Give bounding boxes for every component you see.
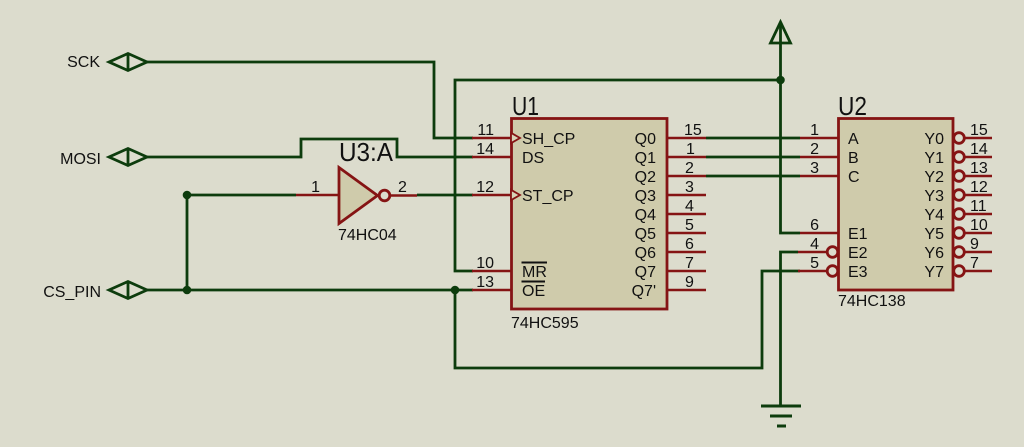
svg-text:9: 9 [970, 236, 979, 253]
svg-text:14: 14 [970, 141, 988, 158]
svg-text:C: C [848, 169, 860, 186]
svg-text:ST_CP: ST_CP [522, 188, 574, 205]
U1 pin 13 OE [472, 274, 545, 300]
svg-text:Y4: Y4 [924, 207, 944, 224]
svg-text:Q3: Q3 [635, 188, 656, 205]
U2 pin 4 E2 [798, 236, 868, 262]
svg-text:1: 1 [686, 141, 695, 158]
svg-text:Q5: Q5 [635, 226, 656, 243]
svg-text:10: 10 [476, 255, 494, 272]
wire CS_PIN to OE [147, 289, 473, 292]
svg-text:Q2: Q2 [635, 169, 656, 186]
wire Q1 to B [706, 156, 800, 159]
terminal CS_PIN [109, 282, 147, 299]
svg-text:12: 12 [970, 179, 988, 196]
U2 pin 1 A [800, 122, 859, 148]
svg-text:Y6: Y6 [924, 245, 944, 262]
junction on CS_PIN at x187 [183, 286, 192, 295]
svg-text:11: 11 [477, 122, 494, 139]
svg-text:MOSI: MOSI [60, 151, 101, 168]
svg-text:4: 4 [810, 236, 819, 253]
svg-text:Y3: Y3 [924, 188, 944, 205]
wire Q0 to A [706, 137, 800, 140]
U2 pin 10 Y5 [924, 217, 992, 243]
inverter U3:A [339, 168, 390, 224]
U1 pin 11 SH_CP [472, 122, 575, 148]
svg-text:12: 12 [476, 179, 494, 196]
svg-text:2: 2 [685, 160, 694, 177]
svg-text:74HC138: 74HC138 [838, 293, 906, 310]
wire CS_PIN down to bottom rail and E3 [455, 271, 800, 368]
svg-text:U1: U1 [512, 91, 539, 121]
wire inverter output to ST_CP [417, 194, 473, 197]
junction VCC rail [776, 76, 785, 85]
svg-text:1: 1 [810, 122, 819, 139]
U1 pin 6 Q6 [635, 236, 706, 262]
wire VCC rail to MR [455, 80, 781, 271]
wire VCC vertical to E1 [781, 22, 801, 233]
svg-text:5: 5 [685, 217, 694, 234]
U2 pin 11 Y4 [924, 198, 992, 224]
svg-text:5: 5 [810, 255, 819, 272]
U2 pin 6 E1 [800, 217, 868, 243]
U1 pin 2 Q2 [635, 160, 706, 186]
svg-text:B: B [848, 150, 859, 167]
svg-text:2: 2 [810, 141, 819, 158]
U1 pin 15 Q0 [635, 122, 706, 148]
U2 pin 12 Y3 [924, 179, 992, 205]
svg-text:7: 7 [970, 255, 979, 272]
svg-text:74HC04: 74HC04 [338, 227, 397, 244]
junction CS_PIN at x455 [451, 286, 460, 295]
U2 pin 9 Y6 [924, 236, 992, 262]
svg-text:SH_CP: SH_CP [522, 131, 575, 148]
svg-text:74HC595: 74HC595 [511, 315, 579, 332]
U1 pin 3 Q3 [635, 179, 706, 205]
U2 pin 2 B [800, 141, 859, 167]
wire E2 to ground [781, 252, 799, 406]
terminal SCK [109, 54, 147, 71]
U2 pin 13 Y2 [924, 160, 992, 186]
U3:A pin 1 [296, 194, 339, 197]
junction on inverter input [183, 191, 192, 200]
svg-text:3: 3 [685, 179, 694, 196]
power symbol VCC [771, 22, 791, 43]
svg-text:CS_PIN: CS_PIN [43, 284, 101, 301]
svg-text:6: 6 [810, 217, 819, 234]
svg-text:13: 13 [970, 160, 988, 177]
wire Q2 to C [706, 175, 800, 178]
U2 pin 14 Y1 [924, 141, 992, 167]
svg-text:DS: DS [522, 150, 544, 167]
U2 pin 3 C [800, 160, 860, 186]
svg-text:Q1: Q1 [635, 150, 656, 167]
svg-text:MR: MR [522, 264, 547, 281]
svg-text:15: 15 [970, 122, 988, 139]
svg-text:4: 4 [685, 198, 694, 215]
U2 pin 15 Y0 [924, 122, 992, 148]
wire SCK to SH_CP [147, 62, 473, 138]
svg-text:6: 6 [685, 236, 694, 253]
svg-text:2: 2 [398, 179, 407, 196]
U1 pin 1 Q1 [635, 141, 706, 167]
U3:A pin 2 [390, 194, 417, 197]
svg-text:15: 15 [684, 122, 702, 139]
svg-text:9: 9 [685, 274, 694, 291]
U2 pin 7 Y7 [924, 255, 992, 281]
U1 pin 7 Q7 [635, 255, 706, 281]
svg-text:E2: E2 [848, 245, 868, 262]
svg-text:Q4: Q4 [635, 207, 656, 224]
svg-text:A: A [848, 131, 859, 148]
U1 pin 14 DS [472, 141, 544, 167]
U2 pin 5 E3 [798, 255, 868, 281]
svg-text:U2: U2 [838, 91, 867, 121]
svg-text:13: 13 [476, 274, 494, 291]
svg-text:E3: E3 [848, 264, 868, 281]
wire MOSI to DS [147, 139, 473, 157]
wire CS_PIN branch to inverter input [187, 195, 296, 290]
svg-text:U3:A: U3:A [339, 137, 394, 167]
U1 pin 5 Q5 [635, 217, 706, 243]
svg-text:E1: E1 [848, 226, 868, 243]
svg-text:3: 3 [810, 160, 819, 177]
svg-text:11: 11 [970, 198, 987, 215]
U1 74HC595 body [512, 119, 668, 310]
terminal MOSI [109, 149, 147, 166]
svg-text:Q7': Q7' [632, 283, 656, 300]
U1 pin 10 MR [472, 255, 547, 281]
svg-text:Q0: Q0 [635, 131, 656, 148]
svg-text:Q7: Q7 [635, 264, 656, 281]
svg-text:SCK: SCK [67, 54, 100, 71]
svg-text:Y0: Y0 [924, 131, 944, 148]
U1 pin 4 Q4 [635, 198, 706, 224]
U2 74HC138 body [839, 119, 954, 291]
svg-text:Y5: Y5 [924, 226, 944, 243]
svg-text:1: 1 [311, 179, 320, 196]
svg-text:14: 14 [476, 141, 494, 158]
svg-text:Y7: Y7 [924, 264, 944, 281]
svg-text:Y2: Y2 [924, 169, 944, 186]
svg-text:Y1: Y1 [924, 150, 944, 167]
U1 pin 9 Q7' [632, 274, 706, 300]
U1 pin 12 ST_CP [472, 179, 574, 205]
svg-text:Q6: Q6 [635, 245, 656, 262]
svg-text:OE: OE [522, 283, 545, 300]
svg-text:10: 10 [970, 217, 988, 234]
svg-text:7: 7 [685, 255, 694, 272]
ground [761, 406, 801, 426]
